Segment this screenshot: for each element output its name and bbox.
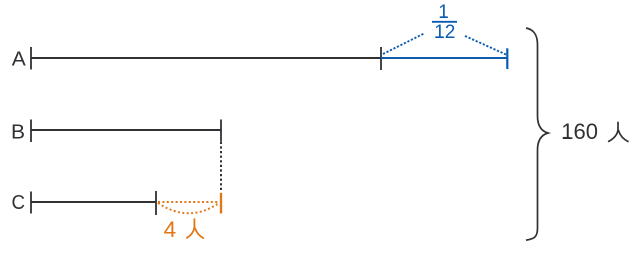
svg-text:A: A	[12, 48, 27, 70]
svg-text:12: 12	[434, 22, 455, 43]
svg-text:B: B	[11, 121, 25, 143]
svg-text:4: 4	[164, 217, 177, 242]
svg-text:160: 160	[561, 119, 598, 144]
svg-text:1: 1	[438, 2, 449, 23]
svg-text:C: C	[12, 192, 26, 214]
